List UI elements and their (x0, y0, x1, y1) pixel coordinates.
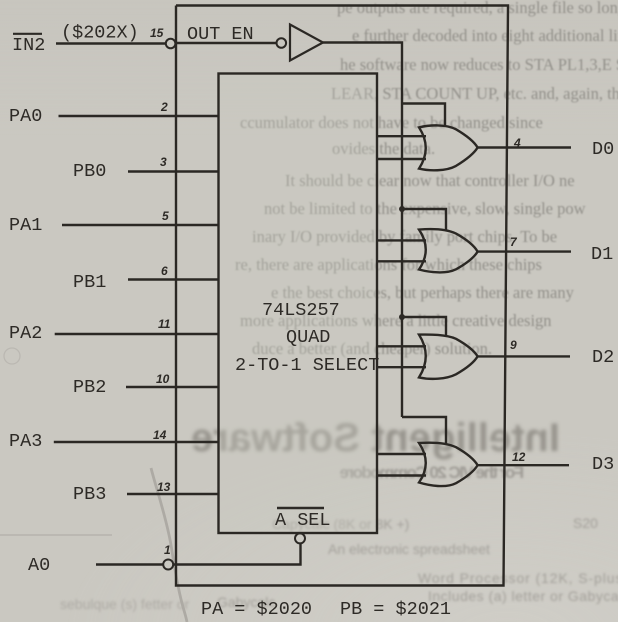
wire G1 input B (377, 158, 426, 160)
svg-text:PB0: PB0 (73, 161, 106, 182)
pin bubble A0 pin 1 (163, 560, 173, 570)
wire enable stub to gate G4 (402, 417, 446, 444)
svg-text:1: 1 (164, 543, 171, 557)
svg-text:PA = $2020: PA = $2020 (201, 599, 312, 620)
wire PB1 (pin 6) (128, 278, 219, 280)
wire D1 output (478, 250, 571, 252)
IC U1 74LS257 inner body (219, 74, 378, 534)
svg-text:2-TO-1 SELECT: 2-TO-1 SELECT (235, 355, 379, 376)
svg-text:13: 13 (157, 480, 171, 494)
or-gate G4 (output D3) (419, 443, 478, 486)
wire enable stub to gate G1 (402, 104, 445, 126)
or-gate G1 (output D0) (419, 125, 478, 170)
paper wash over IC interior (220, 75, 376, 532)
junction dot enable/G3 (399, 314, 405, 320)
svg-text:3: 3 (160, 155, 167, 169)
wire A0 (pin 1) (96, 563, 163, 565)
svg-text:IN2: IN2 (12, 35, 45, 56)
wire PA2 (pin 11) (55, 333, 219, 335)
package outline 74LS257 (176, 6, 508, 586)
svg-text:PA2: PA2 (9, 323, 42, 344)
wire D2 output (478, 355, 570, 357)
pin bubble A SEL (295, 533, 305, 543)
svg-text:12: 12 (512, 450, 526, 464)
wire OUT EN (176, 42, 276, 44)
wire PA0 (pin 2) (59, 115, 219, 117)
inverter U2 input bubble (277, 38, 287, 48)
wire A0 to A SEL (173, 544, 300, 565)
svg-text:74LS257: 74LS257 (262, 300, 340, 321)
svg-text:PA0: PA0 (9, 106, 42, 127)
wire G3 input B (377, 366, 426, 368)
wire G2 input A (377, 239, 426, 241)
wire G4 input B (377, 474, 426, 476)
svg-text:6: 6 (161, 264, 168, 278)
inverter U2 (290, 25, 323, 61)
wire PA3 (pin 14) (54, 441, 219, 443)
background ghost paragraph (show-through page text) (337, 0, 618, 17)
faint show-through circle mark (4, 348, 20, 364)
junction dot enable/G2 (399, 206, 405, 212)
wire enable stub to gate G3 (402, 317, 446, 335)
wire PB2 (pin 10) (126, 386, 219, 388)
or-gate G2 (output D1) (419, 229, 478, 272)
svg-text:14: 14 (153, 428, 167, 442)
svg-text:PB = $2021: PB = $2021 (340, 599, 451, 620)
svg-text:($202X): ($202X) (61, 23, 139, 44)
svg-text:11: 11 (158, 317, 171, 331)
wire D0 output (478, 146, 571, 148)
svg-text:A SEL: A SEL (275, 510, 331, 531)
svg-text:5: 5 (162, 209, 169, 223)
pin bubble IN2 pin 15 (166, 39, 176, 49)
svg-text:D3: D3 (592, 454, 614, 475)
svg-text:7: 7 (510, 235, 518, 249)
svg-text:2: 2 (160, 100, 168, 114)
svg-text:PA3: PA3 (9, 431, 42, 452)
wire G4 input A (377, 453, 426, 455)
svg-text:QUAD: QUAD (286, 327, 330, 348)
svg-text:10: 10 (156, 372, 170, 386)
svg-text:OUT EN: OUT EN (187, 24, 254, 45)
svg-text:A0: A0 (28, 555, 50, 576)
svg-text:PA1: PA1 (9, 215, 42, 236)
wire IN2 (pin 15) (56, 42, 166, 44)
wire D3 output (478, 464, 569, 466)
wire G3 input A (377, 345, 426, 347)
svg-text:9: 9 (510, 338, 517, 352)
svg-text:4: 4 (513, 136, 521, 150)
svg-text:PB1: PB1 (73, 272, 106, 293)
wire G1 input A (377, 135, 426, 137)
background ghost advert (mirrored show-through) (191, 418, 560, 458)
svg-text:PB3: PB3 (73, 484, 106, 505)
wire PA1 (pin 5) (62, 224, 219, 226)
faint show-through box edge (0, 534, 112, 536)
wire PB0 (pin 3) (128, 170, 219, 172)
wire PB3 (pin 13) (127, 493, 219, 495)
or-gate G3 (output D2) (419, 335, 478, 379)
wire enable net (inverter output to gates) (323, 43, 402, 418)
svg-text:D2: D2 (592, 347, 614, 368)
svg-text:PB2: PB2 (73, 377, 106, 398)
svg-text:15: 15 (150, 26, 164, 40)
svg-text:D1: D1 (591, 244, 613, 265)
wire G2 input B (377, 260, 426, 262)
wire enable stub to gate G2 (402, 209, 446, 230)
page crease mark (151, 468, 187, 622)
svg-text:D0: D0 (592, 139, 614, 160)
